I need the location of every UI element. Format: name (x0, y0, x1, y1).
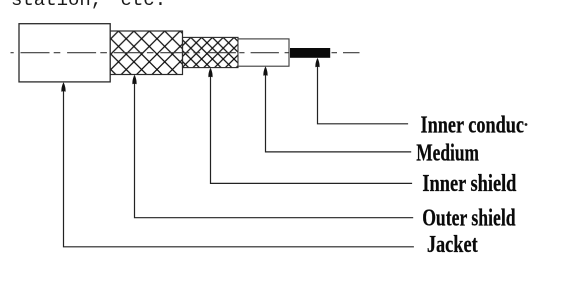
svg-text:Medium: Medium (416, 140, 479, 166)
svg-text:station,: station, (11, 0, 102, 11)
leader: inner conductor (315, 58, 408, 124)
outer shield (cross-hatched) (110, 31, 183, 75)
svg-text:Inner shield: Inner shield (422, 171, 516, 197)
svg-text:Outer shield: Outer shield (422, 206, 516, 232)
leader: jacket (61, 82, 414, 247)
centerline (dash-dot axis) (11, 52, 241, 54)
medium (white dielectric) (238, 39, 289, 66)
leader: inner shield (208, 68, 412, 184)
inner conductor (black bar) (290, 48, 330, 58)
svg-text:etc.: etc. (121, 0, 167, 11)
svg-text:Jacket: Jacket (427, 232, 478, 258)
inner shield (cross-hatched) (183, 37, 239, 67)
jacket (white outer rectangle) (19, 24, 110, 82)
centerline right dashes (239, 52, 359, 54)
leader: medium (263, 66, 411, 151)
cut-off glyph dot after "conduc" (525, 123, 528, 126)
svg-text:Inner conduc: Inner conduc (421, 112, 525, 138)
leader: outer shield (132, 75, 413, 218)
